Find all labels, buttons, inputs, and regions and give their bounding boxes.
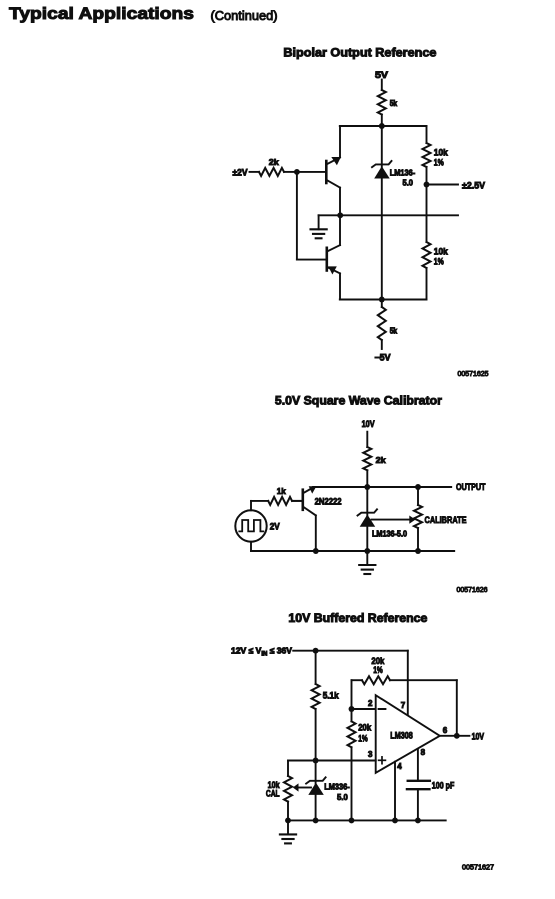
svg-text:10V: 10V <box>362 419 375 429</box>
svg-text:3: 3 <box>368 750 373 759</box>
svg-text:100 pF: 100 pF <box>432 781 455 791</box>
svg-text:5.0V Square Wave Calibrator: 5.0V Square Wave Calibrator <box>275 394 442 408</box>
svg-text:CAL: CAL <box>266 789 280 799</box>
svg-text:2: 2 <box>368 699 373 708</box>
svg-text:5k: 5k <box>390 99 398 108</box>
svg-text:−5V: −5V <box>375 352 391 362</box>
svg-text:5V: 5V <box>375 70 388 80</box>
svg-text:LM136-5.0: LM136-5.0 <box>372 529 407 539</box>
svg-text:5.0: 5.0 <box>403 178 414 188</box>
svg-text:8: 8 <box>421 748 426 757</box>
svg-text:LM308: LM308 <box>390 731 413 741</box>
svg-text:1%: 1% <box>358 733 368 743</box>
svg-text:20k: 20k <box>358 723 372 733</box>
svg-text:12V ≤ VIN ≤ 36V: 12V ≤ VIN ≤ 36V <box>231 646 292 658</box>
svg-text:1k: 1k <box>277 486 286 496</box>
svg-text:LM136-: LM136- <box>390 167 416 177</box>
svg-text:LM336-: LM336- <box>324 781 350 791</box>
svg-text:CALIBRATE: CALIBRATE <box>425 515 467 526</box>
svg-text:(Continued): (Continued) <box>211 8 278 23</box>
svg-text:10V Buffered Reference: 10V Buffered Reference <box>288 611 427 625</box>
svg-text:10k: 10k <box>434 148 449 158</box>
svg-text:±2.5V: ±2.5V <box>462 181 485 191</box>
svg-text:6: 6 <box>443 726 448 735</box>
svg-text:1%: 1% <box>373 665 383 675</box>
svg-text:00571625: 00571625 <box>458 370 489 378</box>
svg-text:1%: 1% <box>434 257 444 267</box>
svg-text:2k: 2k <box>269 157 279 167</box>
svg-text:±2V: ±2V <box>233 167 248 177</box>
svg-text:2V: 2V <box>270 522 280 532</box>
svg-text:00571627: 00571627 <box>462 864 494 872</box>
svg-text:10V: 10V <box>472 731 485 741</box>
svg-text:OUTPUT: OUTPUT <box>456 482 486 493</box>
svg-text:Bipolar Output Reference: Bipolar Output Reference <box>283 45 436 59</box>
svg-text:00571626: 00571626 <box>457 586 488 594</box>
svg-text:Typical Applications: Typical Applications <box>9 5 194 23</box>
svg-text:5.0: 5.0 <box>337 792 348 802</box>
svg-text:7: 7 <box>401 701 406 710</box>
svg-text:5.1k: 5.1k <box>323 691 340 701</box>
svg-text:5k: 5k <box>390 327 398 336</box>
svg-text:10k: 10k <box>434 247 449 257</box>
svg-text:4: 4 <box>397 762 402 771</box>
svg-text:1%: 1% <box>434 158 444 168</box>
svg-text:2k: 2k <box>376 455 386 465</box>
svg-text:2N2222: 2N2222 <box>315 497 342 507</box>
